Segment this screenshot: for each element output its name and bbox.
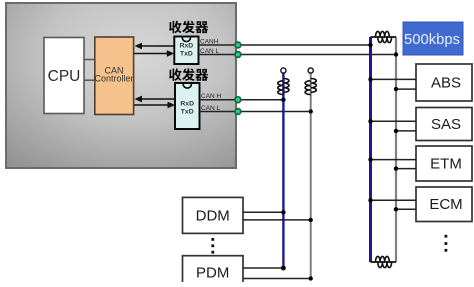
wire RxD transceiver2 to controller xyxy=(135,96,176,103)
svg-text:RxD: RxD xyxy=(180,101,194,108)
CAN controller xyxy=(94,37,133,115)
terminal circle body CAN-H xyxy=(281,68,286,73)
connector pin CAN H (green) xyxy=(235,97,241,103)
svg-text:CAN L: CAN L xyxy=(201,105,221,112)
wire PDM to body CAN-L xyxy=(243,278,311,280)
transceiver U2 chip xyxy=(174,37,198,65)
wire DDM to body CAN-L xyxy=(243,219,311,221)
svg-text:ETM: ETM xyxy=(430,156,462,173)
module box (gray ECU module background) xyxy=(6,3,236,168)
wire TxD controller to transceiver1 xyxy=(134,50,174,57)
wire PDM to body CAN-H xyxy=(243,267,283,269)
ellipsis between DDM and PDM xyxy=(211,238,214,254)
svg-text:500kbps: 500kbps xyxy=(404,32,460,48)
CPU box xyxy=(44,38,84,114)
DDM node box xyxy=(183,197,244,233)
body bus CAN-L line (gray vertical) xyxy=(310,73,312,279)
500kbps speed label xyxy=(403,22,463,55)
ABS node box xyxy=(416,64,472,101)
svg-text:CPU: CPU xyxy=(48,68,81,85)
termination coil body CAN-H xyxy=(278,79,289,95)
wire TxD controller to transceiver2 xyxy=(134,102,175,109)
wire ETM to CAN-H xyxy=(371,159,417,161)
svg-text:TxD: TxD xyxy=(181,109,194,116)
PDM node box xyxy=(183,256,244,286)
connector pin CANH (green) xyxy=(235,42,241,48)
svg-text:RxD: RxD xyxy=(180,43,194,50)
svg-text:CANH: CANH xyxy=(200,39,219,46)
wire CAN H transceiver2 to body bus xyxy=(200,99,284,101)
wire ECM to CAN-H xyxy=(371,199,417,201)
svg-text:CAN L: CAN L xyxy=(200,48,220,55)
bottom termination resistor coil xyxy=(376,256,392,267)
500k bus CAN-L line (gray vertical) xyxy=(395,37,397,262)
svg-text:ABS: ABS xyxy=(431,75,461,92)
wire CPU-controller link 1 xyxy=(84,59,95,61)
connector pin CAN L (green) xyxy=(235,109,241,115)
wire CANH transceiver1 to 500k bus xyxy=(199,44,371,46)
svg-text:CAN H: CAN H xyxy=(201,93,222,100)
junction dots on body buses xyxy=(281,98,313,281)
transceiver U3 chip xyxy=(175,83,200,129)
termination coil body CAN-L xyxy=(305,79,316,95)
svg-text:DDM: DDM xyxy=(196,208,230,225)
body bus CAN-H line (blue vertical) xyxy=(282,73,284,268)
ellipsis below ECM xyxy=(445,235,448,252)
ECM node box xyxy=(416,187,472,222)
SAS node box xyxy=(416,108,472,141)
wire ABS to CAN-H xyxy=(371,78,417,80)
svg-text:Controller: Controller xyxy=(94,74,133,84)
wire CPU-controller link 2 xyxy=(84,79,95,81)
wire SAS to CAN-L xyxy=(396,130,416,132)
label 收发器 transceiver 2 xyxy=(169,68,208,81)
500k bus CAN-H line (blue vertical) xyxy=(369,37,372,262)
svg-text:SAS: SAS xyxy=(431,116,461,133)
top termination resistor coil xyxy=(376,31,392,42)
wire ECM to CAN-L xyxy=(396,208,416,210)
svg-text:TxD: TxD xyxy=(180,51,193,58)
wire SAS to CAN-H xyxy=(371,120,417,122)
ETM node box xyxy=(416,146,472,181)
junction dots on 500k CAN-L bus xyxy=(394,52,398,211)
connector pin CANL (green) xyxy=(235,52,241,58)
wire CANL transceiver1 to 500k bus xyxy=(199,54,397,56)
label 收发器 transceiver 1 xyxy=(169,21,208,34)
svg-text:ECM: ECM xyxy=(429,196,462,213)
top termination wire xyxy=(371,36,397,38)
bottom termination wire xyxy=(371,261,397,263)
svg-text:PDM: PDM xyxy=(196,265,229,282)
wire DDM to body CAN-H xyxy=(243,211,283,213)
wire CAN L transceiver2 to body bus xyxy=(200,111,311,113)
wire ETM to CAN-L xyxy=(396,168,416,170)
junction dots on 500k CAN-H bus xyxy=(368,43,372,203)
wire ABS to CAN-L xyxy=(396,88,416,90)
terminal circle body CAN-L xyxy=(308,68,313,73)
wire RxD transceiver1 to controller xyxy=(135,43,175,50)
